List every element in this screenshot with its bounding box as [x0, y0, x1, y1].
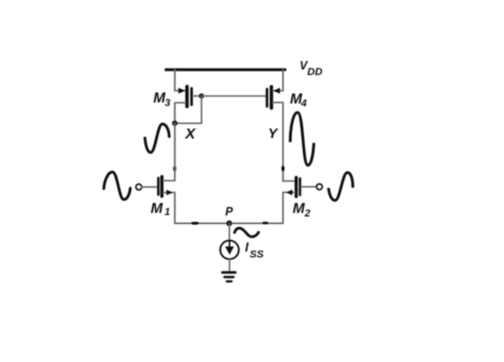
svg-text:M3: M3 — [153, 91, 171, 110]
svg-text:M1: M1 — [151, 201, 171, 218]
svg-text:P: P — [225, 207, 233, 219]
svg-text:M4: M4 — [290, 92, 307, 110]
svg-text:X: X — [184, 125, 196, 142]
svg-text:M2: M2 — [293, 201, 311, 220]
svg-text:VDD: VDD — [300, 60, 323, 78]
svg-text:ISS: ISS — [245, 240, 264, 260]
svg-text:Y: Y — [268, 125, 279, 141]
